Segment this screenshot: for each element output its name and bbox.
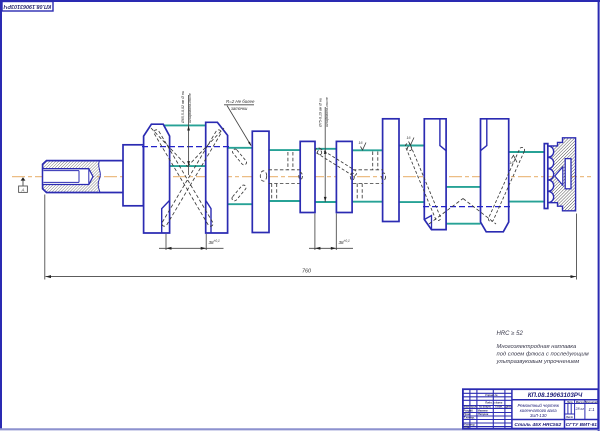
svg-text:№ докум.: № докум. <box>479 405 492 409</box>
svg-text:Масса: Масса <box>576 400 585 404</box>
svg-text:Дата: Дата <box>504 405 513 409</box>
svg-text:28 кг: 28 кг <box>575 407 585 411</box>
svg-text:Ø75-0,19 вм Ø ни: Ø75-0,19 вм Ø ни <box>318 98 322 128</box>
svg-text:Масштаб: Масштаб <box>585 400 598 404</box>
svg-text:шлифовать после: шлифовать после <box>188 93 192 123</box>
svg-text:заточки: заточки <box>230 106 248 111</box>
svg-text:КП.08.19063103РЧ: КП.08.19063103РЧ <box>4 3 52 9</box>
svg-text:16: 16 <box>407 136 411 140</box>
svg-text:СГТУ ВМТ-61: СГТУ ВМТ-61 <box>566 422 598 428</box>
svg-text:Многоэлектродная наплавка: Многоэлектродная наплавка <box>497 344 578 350</box>
svg-text:+0,1: +0,1 <box>344 239 351 243</box>
svg-text:Лит.: Лит. <box>566 400 574 404</box>
svg-text:Иванов: Иванов <box>478 409 488 413</box>
svg-text:Подп. и дата: Подп. и дата <box>485 400 503 404</box>
svg-text:16: 16 <box>510 161 514 165</box>
svg-text:760: 760 <box>302 269 311 275</box>
svg-text:КП.08.19063103РЧ: КП.08.19063103РЧ <box>528 392 583 399</box>
svg-text:16: 16 <box>359 141 363 145</box>
svg-text:Утв.: Утв. <box>464 425 471 429</box>
svg-text:ультразвуковым упрочнением: ультразвуковым упрочнением <box>496 359 580 365</box>
svg-text:Сталь 45Х HRC≥52: Сталь 45Х HRC≥52 <box>514 422 561 428</box>
svg-text:+0,1: +0,1 <box>214 239 221 243</box>
svg-text:Петров: Петров <box>478 412 489 416</box>
svg-text:HRC ≥ 52: HRC ≥ 52 <box>497 331 524 337</box>
svg-text:Лист: Лист <box>565 415 574 419</box>
svg-text:шлифовать после: шлифовать после <box>325 97 329 127</box>
svg-text:под слоем флюса с последующим: под слоем флюса с последующим <box>497 352 589 358</box>
svg-text:Лист: Лист <box>469 405 478 409</box>
svg-text:А: А <box>20 187 24 192</box>
svg-text:Изм: Изм <box>464 405 469 409</box>
svg-text:Подп.: Подп. <box>495 405 503 409</box>
svg-text:R=2 Не более: R=2 Не более <box>226 99 255 104</box>
svg-text:Разраб.: Разраб. <box>464 409 474 413</box>
svg-text:1:1: 1:1 <box>588 407 595 412</box>
svg-text:Т.контр.: Т.контр. <box>464 416 476 420</box>
svg-text:Справ. №: Справ. № <box>485 393 497 397</box>
svg-text:ЗиЛ-130: ЗиЛ-130 <box>530 413 547 418</box>
svg-text:Ø65,5-0,02 вм Ø ни: Ø65,5-0,02 вм Ø ни <box>181 91 185 124</box>
svg-text:Пров.: Пров. <box>464 412 472 416</box>
